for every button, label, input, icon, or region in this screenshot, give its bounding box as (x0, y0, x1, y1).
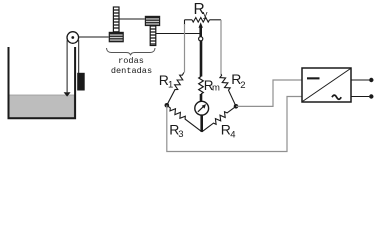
gear wheel 2 (145, 16, 160, 26)
label R3 (169, 121, 183, 140)
svg-text:3: 3 (178, 129, 183, 140)
resistor R3 (167, 105, 202, 132)
label Ry (194, 1, 208, 20)
label rodas dentadas (111, 56, 152, 76)
output lead upper (351, 79, 369, 81)
resistor R4 (202, 106, 236, 132)
svg-text:dentadas: dentadas (111, 66, 152, 76)
pot left lead (185, 19, 193, 21)
pulley (67, 32, 79, 44)
tank walls (9, 47, 76, 118)
label Rm (204, 78, 220, 93)
float pointer arrow on liquid surface (64, 92, 71, 96)
gear screw rod 1 (113, 7, 119, 32)
wire rod 1 to gear wheel 2 (119, 18, 145, 20)
svg-text:rodas: rodas (118, 56, 144, 66)
wiper arrow (199, 22, 203, 36)
wire left node to converter lower input (bottom rail) (167, 97, 302, 152)
resistor Rm (199, 77, 204, 95)
wiper joint circle (199, 37, 203, 41)
cord left (to float pointer) (66, 40, 68, 92)
svg-text:4: 4 (230, 129, 235, 140)
wire wiper down to Rm (200, 41, 203, 77)
pot right lead (210, 19, 222, 21)
galvanometer (195, 101, 209, 115)
DC symbol bar (307, 77, 320, 79)
output terminal upper (369, 78, 373, 82)
label R2 (231, 71, 245, 91)
potentiometer Ry resistor body (192, 18, 210, 23)
wire Rm to galvanometer (200, 94, 203, 102)
resistor R1 (167, 73, 184, 106)
gear screw rod 2 (150, 26, 156, 46)
output terminal lower (369, 94, 373, 98)
brace rodas dentadas (107, 48, 156, 55)
wire pulley to gear wheel 1 (79, 36, 109, 38)
tank liquid (9, 95, 74, 118)
wire rod 2 to potentiometer wiper (156, 33, 201, 35)
wire right node to converter upper input (236, 80, 302, 106)
output lead lower (351, 96, 369, 98)
label R1 (159, 72, 173, 91)
node left junction dot (165, 103, 170, 108)
counterweight (77, 73, 85, 91)
wire galvanometer to bottom node (200, 115, 203, 132)
svg-text:2: 2 (240, 80, 245, 91)
svg-text:m: m (212, 82, 220, 93)
AC symbol tilde (332, 95, 341, 99)
wire pot left terminal down to R1 (184, 20, 186, 73)
cord right (to counterweight) (78, 40, 80, 73)
label R4 (221, 122, 236, 141)
gear wheel 1 (109, 32, 124, 43)
svg-text:1: 1 (168, 80, 173, 91)
node right junction dot (234, 104, 239, 109)
resistor R2 (220, 74, 236, 106)
converter box U1 (302, 68, 351, 102)
wire pot right terminal down to R2 (220, 20, 222, 74)
